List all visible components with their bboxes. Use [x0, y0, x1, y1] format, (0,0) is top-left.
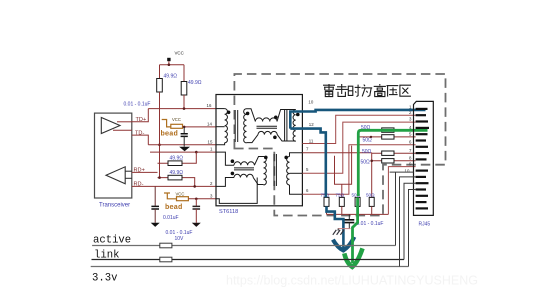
svg-text:49.9Ω: 49.9Ω — [188, 80, 202, 86]
RX input stub RD+ — [125, 170, 132, 172]
3.3v supply line — [91, 266, 409, 268]
junction dot R1/TD- rail — [158, 144, 161, 147]
green path through RT3 — [353, 197, 358, 263]
choke CH1 bottom dot — [273, 136, 277, 140]
resistor 50ohm pin5 row — [358, 135, 415, 144]
transceiver U2 box — [95, 113, 132, 198]
svg-text:50Ω: 50Ω — [366, 192, 375, 197]
wire spaghetti segment b — [341, 184, 343, 197]
svg-text:bead: bead — [161, 131, 178, 139]
wire bead to pin14 — [183, 126, 217, 128]
svg-text:VCC: VCC — [172, 117, 181, 122]
T1 primary winding — [216, 109, 227, 145]
transceiver RX buffer triangle — [106, 167, 125, 184]
RJ45 pin numbers 1-10 — [405, 104, 413, 173]
blue arrowhead — [333, 237, 354, 251]
wire TD- rail to pin15 — [148, 144, 216, 146]
choke CH2 core — [234, 168, 254, 170]
svg-text:12: 12 — [309, 122, 314, 127]
transceiver TX buffer triangle — [101, 118, 120, 134]
termination rail vertical — [371, 153, 373, 198]
termination bottom rail — [327, 206, 389, 214]
link riser to RJ45 — [404, 183, 416, 259]
wire pin1 row — [150, 151, 216, 153]
T2 core — [274, 154, 276, 186]
svg-text:3.3v: 3.3v — [92, 272, 117, 284]
svg-text:0.01 - 0.1uF: 0.01 - 0.1uF — [124, 102, 151, 108]
resistor 50ohm pin7 row — [362, 149, 416, 156]
RJ45 contact bars — [416, 109, 429, 208]
output winding (upper, center-tapped) — [293, 110, 296, 142]
resistor RT1 75 ohm — [321, 192, 330, 206]
ferrite bead FB2 — [164, 191, 188, 212]
wire TD+ rail to pin16 — [148, 108, 216, 110]
junction dot pin14/C1 — [183, 126, 186, 129]
T2 primary dot — [264, 156, 268, 160]
T1 secondary phase dot — [246, 112, 250, 116]
wire TD- — [132, 135, 149, 145]
svg-text:0.01 - 0.1uF: 0.01 - 0.1uF — [357, 221, 384, 227]
RJ45 connector J1 outline — [414, 101, 434, 215]
capacitor C1 (bead decouple) — [181, 127, 188, 147]
svg-text:0.01 - 0.1uF: 0.01 - 0.1uF — [166, 230, 193, 236]
svg-text:49.9Ω: 49.9Ω — [164, 74, 178, 80]
svg-text:ST6118: ST6118 — [219, 209, 238, 215]
title 雷击时为高压区 (drawn strokes) — [323, 84, 411, 97]
svg-text:49.9Ω: 49.9Ω — [170, 170, 184, 176]
wire TD+ — [132, 109, 149, 122]
choke CH2 bottom dot — [231, 172, 235, 176]
wire bead2 to pin3 — [188, 198, 216, 200]
svg-text:https://blog.csdn.net/LIUHUATI: https://blog.csdn.net/LIUHUATINGYUSHENG — [226, 274, 478, 288]
blue lightning path pin10 to RJ45 pin1 — [290, 110, 425, 129]
T1 core — [235, 110, 238, 142]
title glyph 1: lei (thunder) — [323, 84, 335, 97]
blue lightning path pin12 down — [290, 129, 326, 198]
resistor 50ohm pin4 row — [361, 125, 416, 132]
VCC power symbol — [167, 51, 184, 65]
TX output stub TD+ — [117, 121, 132, 123]
svg-text:16: 16 — [207, 103, 212, 108]
output winding dot — [296, 113, 300, 117]
title glyph 7: qu (zone) — [400, 85, 411, 96]
ferrite bead FB1 — [161, 117, 183, 138]
wire pin7 to termination rail — [302, 152, 371, 154]
junction dot R2/TD+ rail — [183, 107, 186, 110]
resistor on link line — [160, 257, 172, 262]
title glyph 4: wei (as) — [361, 85, 372, 97]
svg-text:50Ω: 50Ω — [363, 138, 373, 144]
T2 secondary dot — [284, 156, 288, 160]
junction dot bias column — [158, 176, 161, 179]
wire R2 bottom lead — [183, 95, 185, 109]
resistor RT2 75 ohm — [336, 192, 345, 206]
svg-text:50Ω: 50Ω — [361, 160, 371, 166]
wire pin3 interior low route — [216, 178, 257, 204]
svg-text:bead: bead — [165, 204, 182, 212]
ground symbol under C2 — [151, 223, 160, 227]
transformer module ST6118 box — [216, 95, 302, 206]
svg-text:10: 10 — [308, 100, 313, 105]
svg-text:50Ω: 50Ω — [362, 149, 372, 155]
3.3v riser to RJ45 — [409, 190, 416, 267]
svg-text:10V: 10V — [175, 236, 185, 242]
ground symbol (arrow) under C1 — [179, 147, 190, 152]
svg-text:TD+: TD+ — [136, 117, 147, 123]
choke CH2 top coil (lower channel) — [216, 152, 264, 165]
T1 primary phase dot — [227, 111, 231, 115]
choke CH1 bottom coil — [247, 131, 296, 142]
wire T2 sec bottom to pin6 — [290, 185, 303, 194]
choke CH1 core — [257, 126, 278, 128]
wire pin5 to RJ45 pin3 — [302, 122, 415, 173]
green lightning path RJ45 pin4 — [358, 130, 427, 196]
svg-text:RD-: RD- — [134, 181, 144, 187]
choke CH1 top dot — [274, 116, 278, 120]
wire ground link — [338, 228, 351, 230]
output winding core (upper) — [285, 110, 287, 142]
capacitor C2 0.01uF — [151, 186, 178, 222]
RX input stub RD- — [125, 177, 132, 179]
svg-text:TD-: TD- — [135, 130, 144, 136]
T1 secondary winding — [244, 109, 247, 143]
link line — [92, 259, 405, 261]
capacitor C4 0.01-0.1uF — [344, 214, 383, 228]
svg-text:0.01uF: 0.01uF — [163, 215, 179, 221]
svg-text:75Ω: 75Ω — [336, 192, 345, 197]
wire RJ45 pin9 to rail — [388, 167, 415, 215]
green arrowhead — [344, 248, 362, 267]
resistor RA 49.9 ohm (RD+ bias a) — [158, 152, 197, 165]
junction dot rail pin8 — [370, 160, 373, 163]
svg-text:active: active — [93, 234, 131, 246]
wire T2 primary bottom link — [257, 184, 263, 186]
svg-text:10: 10 — [405, 169, 410, 174]
resistor 50ohm pin8 row — [361, 159, 416, 166]
active line — [92, 245, 395, 247]
resistor R2 49.9 ohm (TD+ pullup) — [181, 80, 202, 95]
high-voltage region dashed boundary — [234, 74, 445, 216]
svg-text:14: 14 — [207, 122, 212, 127]
active riser to RJ45 pin10 — [390, 172, 414, 245]
choke CH1 top coil — [247, 109, 296, 122]
wire R1 bottom lead down to TD- and RD bias — [159, 92, 161, 178]
wire RD- to pin 2 — [132, 185, 216, 187]
svg-text:RD+: RD+ — [134, 168, 145, 174]
riser second to RJ45 — [400, 177, 416, 267]
blue path below RT1 — [327, 206, 344, 248]
choke CH2 bottom coil — [216, 174, 264, 186]
choke CH2 top dot — [231, 159, 235, 163]
svg-text:15: 15 — [208, 139, 213, 144]
wire T2 sec tap to pin5 — [290, 172, 303, 174]
ground symbol under C3 — [192, 223, 201, 227]
resistor RB 49.9 ohm (RD+ bias b) — [158, 170, 195, 186]
title glyph 2: ji (strike) — [336, 84, 348, 96]
junction dot pin3/C3 — [195, 198, 198, 201]
svg-text:49.9Ω: 49.9Ω — [170, 156, 184, 162]
svg-text:11: 11 — [309, 138, 314, 143]
resistor on active line — [160, 243, 172, 248]
chassis ground symbol — [333, 229, 344, 235]
capacitor C3 0.01-0.1uF 10V — [166, 199, 201, 242]
wire RD+ — [132, 171, 158, 173]
wire VCC rail top — [160, 65, 185, 82]
svg-text:VCC: VCC — [175, 51, 184, 56]
resistor R1 49.9 ohm (TD- pullup) — [157, 74, 178, 93]
junction dot RB/RD- — [193, 185, 196, 188]
T2 secondary winding (lower) — [287, 157, 290, 185]
wire pin6 to RJ45 pin6 — [302, 145, 415, 195]
wire pin11 to RJ45 pin2 — [302, 115, 415, 143]
title glyph 6: ya (pressure) — [387, 86, 399, 97]
T2 primary winding (lower) — [264, 157, 267, 185]
TX output stub TD- — [113, 129, 132, 131]
title glyph 3: shi (time) — [348, 85, 360, 97]
junction dot VCC — [168, 63, 171, 66]
resistor RT4 50 ohm — [366, 192, 375, 206]
junction dot pin5 lead — [370, 136, 372, 138]
wire spaghetti segment a — [335, 146, 352, 185]
resistor RT3 50 ohm — [352, 192, 361, 206]
junction dot pin1/RA — [195, 151, 198, 154]
svg-text:RJ45: RJ45 — [419, 222, 431, 228]
svg-text:Transceiver: Transceiver — [99, 203, 130, 209]
wire T2 sec top to pin7 — [290, 153, 303, 157]
title glyph 5: gao (high) — [374, 84, 386, 97]
svg-text:VCC: VCC — [176, 191, 185, 196]
